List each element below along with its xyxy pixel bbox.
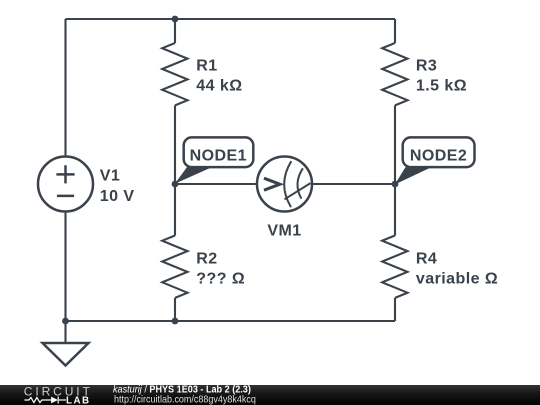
wire right branch top lead (394, 19, 396, 43)
VM1 rotated V glyph (264, 178, 280, 190)
VM1 needle (285, 183, 311, 199)
wire right branch bottom lead (394, 298, 396, 321)
junction node NODE2 (392, 181, 399, 188)
VM1 gauge arc outer (284, 161, 291, 207)
resistor R3 (382, 43, 407, 105)
node NODE2 callout pointer (395, 167, 432, 184)
V1 plus terminal mark (56, 165, 74, 183)
svg-text:R2: R2 (196, 250, 217, 267)
wire right branch mid (394, 105, 396, 235)
wire left branch upper (64, 19, 66, 157)
svg-text:V1: V1 (100, 168, 120, 185)
wire top horizontal (66, 18, 396, 20)
svg-text:R4: R4 (416, 250, 437, 267)
wire middle branch mid (174, 105, 176, 235)
svg-text:R1: R1 (196, 58, 217, 75)
ground (43, 343, 89, 366)
resistor R1 (162, 43, 187, 105)
node NODE1 callout box (184, 137, 254, 167)
resistor R4 (382, 236, 407, 298)
wire node1 to voltmeter (175, 183, 257, 185)
footer bar (0, 385, 540, 405)
wire left branch lower (64, 212, 66, 344)
voltage source V1 body (38, 157, 93, 212)
svg-text:NODE2: NODE2 (410, 148, 467, 165)
wire bottom horizontal (66, 320, 396, 322)
wire voltmeter to node2 (312, 183, 395, 185)
svg-text:LAB: LAB (66, 395, 91, 405)
resistor R2 (162, 236, 187, 298)
node NODE2 callout box (403, 137, 475, 167)
junction node top of R1 (172, 16, 179, 23)
wire middle branch top lead (174, 19, 176, 43)
logo CircuitLab (24, 384, 93, 405)
V1 minus terminal mark (57, 195, 74, 198)
svg-text:NODE1: NODE1 (190, 148, 247, 165)
svg-text:10 V: 10 V (100, 188, 135, 205)
svg-text:44 kΩ: 44 kΩ (196, 78, 242, 95)
svg-text:variable Ω: variable Ω (416, 271, 498, 288)
svg-text:R3: R3 (416, 58, 437, 75)
junction node ground tee (62, 318, 69, 325)
junction node NODE1 (172, 181, 179, 188)
svg-text:http://circuitlab.com/c88gv4y8: http://circuitlab.com/c88gv4y8k4kcq (114, 394, 256, 405)
junction node bottom of R2 (172, 318, 179, 325)
svg-text:1.5 kΩ: 1.5 kΩ (416, 78, 467, 95)
node NODE1 callout pointer (175, 167, 212, 184)
svg-text:VM1: VM1 (267, 223, 301, 240)
svg-text:??? Ω: ??? Ω (196, 271, 245, 288)
wire middle branch bottom lead (174, 298, 176, 321)
voltmeter VM1 body (257, 157, 312, 212)
VM1 gauge arc inner (297, 168, 302, 198)
